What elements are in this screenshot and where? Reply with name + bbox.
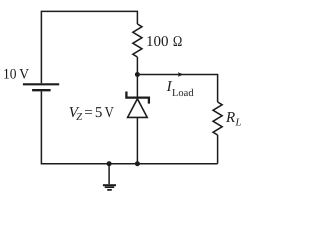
battery V1 bottom plate (short, negative) — [32, 89, 51, 91]
load resistor RL zigzag — [213, 102, 222, 135]
svg-text:=: = — [84, 105, 92, 121]
svg-text:Z: Z — [76, 112, 82, 123]
wire: ground stem — [108, 164, 110, 185]
svg-text:V: V — [105, 105, 114, 121]
wire: resistor bottom to node A — [136, 57, 138, 75]
svg-text:10 V: 10 V — [3, 67, 29, 83]
svg-text:L: L — [235, 118, 242, 129]
wire: top horizontal + left vertical down to battery — [41, 11, 137, 83]
ground bar 3 — [107, 189, 112, 191]
wire: zener anode down to bottom rail — [136, 117, 138, 163]
junction dot ground/bottom rail — [107, 161, 112, 166]
wire: left vertical below battery + bottom horizontal — [41, 91, 217, 163]
svg-text:R: R — [225, 110, 235, 126]
wire: node A to right, down right side to load resistor — [137, 75, 217, 103]
svg-text:Ω: Ω — [173, 34, 182, 50]
resistor R1 100ohm zigzag — [133, 24, 142, 57]
wire: RL bottom to bottom-right corner — [217, 135, 219, 164]
zener anode triangle — [128, 99, 148, 118]
svg-text:100: 100 — [146, 34, 169, 50]
arrowhead for I_Load — [178, 72, 184, 77]
battery V1 top plate (long, positive) — [23, 83, 59, 85]
ground bar 1 — [103, 184, 116, 186]
svg-text:Load: Load — [172, 88, 194, 99]
node A junction dot — [135, 72, 140, 77]
zener cathode bar with bent ends — [126, 92, 148, 104]
junction dot zener/bottom rail — [135, 161, 140, 166]
svg-text:5: 5 — [95, 105, 103, 121]
zener diode D1: wire from node A down to cathode bar — [136, 75, 138, 98]
ground bar 2 — [105, 186, 115, 188]
